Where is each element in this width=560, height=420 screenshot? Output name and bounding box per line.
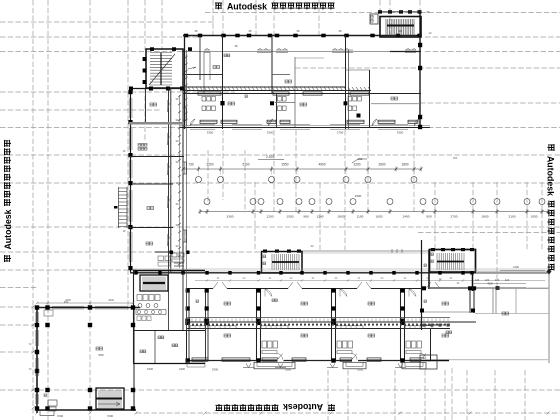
- right block dimension text row: [473, 265, 545, 286]
- svg-text:1800: 1800: [401, 163, 408, 167]
- svg-text:4900: 4900: [318, 163, 325, 167]
- left wing corridor east wall window boxes: [183, 108, 186, 242]
- junction dark band y270: [133, 270, 205, 272]
- upper block tiny dim text above top wall: [194, 29, 402, 33]
- stair S3 mid lower wing: [262, 252, 303, 274]
- svg-text:Autodesk: Autodesk: [283, 402, 323, 412]
- chain1 annotation 2.100: [258, 155, 367, 163]
- svg-text:4200: 4200: [108, 298, 114, 302]
- svg-text:1240: 1240: [317, 215, 324, 219]
- stair S4 right lower wing: [430, 250, 476, 273]
- svg-text:1650: 1650: [376, 215, 383, 219]
- svg-text:2700: 2700: [337, 131, 344, 135]
- svg-text:120: 120: [485, 278, 490, 282]
- svg-text:3300: 3300: [357, 368, 364, 372]
- svg-text:4200: 4200: [65, 298, 71, 302]
- svg-text:45: 45: [338, 29, 342, 33]
- left wing stair west columns: [143, 57, 147, 84]
- svg-text:2400: 2400: [403, 215, 410, 219]
- watermark left rotated -90: [3, 140, 13, 262]
- svg-text:1050: 1050: [531, 215, 538, 219]
- big room window ticks on west wall: [36, 312, 39, 404]
- svg-text:1500: 1500: [355, 194, 362, 198]
- junction toilet cluster: [136, 295, 166, 321]
- svg-text:150: 150: [358, 157, 363, 161]
- svg-text:1500: 1500: [147, 367, 153, 371]
- right block partitions gray: [420, 268, 549, 363]
- big room top dimension line: [36, 298, 135, 304]
- lower wing north wall with column dashes: [263, 248, 474, 253]
- lower wing corridor south wall with doors: [186, 282, 548, 290]
- lower wing classroom labels row1: [196, 299, 449, 305]
- left wing corridor east wall: [183, 50, 187, 252]
- fire ladder outside west wall: [114, 187, 127, 228]
- right block column and band-end diamond: [420, 269, 552, 334]
- big room bottom wall: [36, 409, 136, 411]
- upper block top exterior wall with columns: [183, 34, 422, 38]
- lower wing tiny dim texts below south wall: [212, 368, 364, 372]
- svg-text:7200: 7200: [107, 414, 114, 418]
- upper block partition columns at y103: [220, 101, 347, 105]
- upper block corridor hatched band: [183, 87, 371, 91]
- lower wing south wall partition columns: [186, 358, 405, 362]
- svg-text:3300: 3300: [207, 131, 214, 135]
- junction walls: [133, 252, 205, 364]
- svg-text:7200: 7200: [57, 414, 64, 418]
- svg-text:3300: 3300: [227, 215, 234, 219]
- big room corner fixture top-left: [44, 310, 53, 316]
- svg-text:39: 39: [234, 44, 238, 48]
- upper block bottom exterior wall with sills: [180, 124, 430, 129]
- upper block right wall: [419, 11, 421, 129]
- scattered tiny annotations: [64, 10, 460, 371]
- svg-text:36: 36: [296, 29, 300, 33]
- svg-text:Autodesk: Autodesk: [3, 209, 13, 249]
- big room west wall: [36, 307, 38, 414]
- big room top wall: [37, 307, 140, 309]
- stair S1 top-right of upper block: [370, 10, 422, 51]
- upper block WC stall clusters: [202, 97, 361, 111]
- level symbols below wing: [243, 364, 406, 368]
- svg-text:900: 900: [426, 215, 431, 219]
- svg-text:3300: 3300: [212, 368, 219, 372]
- upper block corridor south wall with window boxes: [183, 92, 421, 95]
- big room bottom dim texts: [36, 412, 550, 419]
- svg-text:1800: 1800: [338, 215, 345, 219]
- left wing partition walls horizontal: [129, 122, 184, 252]
- right block wall y288 gray: [429, 287, 549, 289]
- right block stair south walls: [429, 250, 473, 292]
- lower wing partition columns: [185, 288, 405, 325]
- big room bottom-left step: [40, 411, 54, 416]
- upper block room labels: [188, 44, 398, 106]
- svg-text:45: 45: [248, 29, 252, 33]
- left wing wall y88 with columns: [129, 87, 184, 91]
- svg-text:1500: 1500: [287, 215, 294, 219]
- upper block inner wall y51 with windows: [183, 49, 421, 53]
- big room corner fixtures bottom-left: [44, 394, 57, 411]
- lower wing south wall with window boxes: [186, 354, 548, 363]
- left wing corridor door swings: [168, 100, 172, 246]
- svg-text:2200: 2200: [353, 163, 360, 167]
- upper block tiny dim texts below bottom wall: [207, 131, 404, 135]
- svg-text:2550: 2550: [281, 163, 288, 167]
- lower wing corridor north wall with columns and windows: [130, 271, 548, 275]
- svg-text:Autodesk: Autodesk: [227, 1, 267, 11]
- dimension chain 1 under upper block: [182, 163, 423, 183]
- svg-text:589: 589: [98, 353, 103, 357]
- upper block mid window boxes row: [200, 120, 418, 123]
- left wing room labels: [138, 103, 157, 245]
- upper block partition walls horizontal: [183, 57, 420, 128]
- watermark top: [215, 1, 335, 11]
- big room columns: [35, 305, 135, 410]
- big room west vertical dim ticks: [29, 306, 35, 410]
- svg-text:3300: 3300: [267, 131, 274, 135]
- upper block isolated column in hall: [357, 114, 361, 118]
- svg-text:2.100: 2.100: [266, 155, 274, 159]
- left wing corridor west wall double: [169, 89, 171, 273]
- junction room labels: [140, 336, 178, 353]
- svg-text:2200: 2200: [206, 163, 213, 167]
- watermark right rotated 90: [546, 144, 556, 271]
- svg-text:1200: 1200: [267, 215, 274, 219]
- big room top wall windows: [52, 306, 128, 309]
- svg-text:120: 120: [495, 278, 500, 282]
- svg-text:2100: 2100: [509, 215, 516, 219]
- upper block left wall: [184, 35, 186, 129]
- svg-text:3300: 3300: [397, 131, 404, 135]
- lower wing mid dense band: [186, 318, 476, 329]
- left wing vertical dimension chain x179: [176, 95, 181, 268]
- right block lower walls: [420, 264, 509, 369]
- svg-text:730: 730: [188, 163, 194, 167]
- big room east wall: [133, 308, 135, 411]
- upper block door arcs bottom: [190, 119, 419, 126]
- stair S5 junction: [140, 275, 168, 291]
- svg-text:150: 150: [453, 156, 458, 160]
- lower wing partition walls vertical: [187, 289, 475, 361]
- dimension chain 2 mid courtyard: [199, 194, 550, 219]
- svg-text:5100: 5100: [242, 163, 249, 167]
- lower wing walkway band: [133, 269, 548, 271]
- svg-text:2600: 2600: [378, 163, 385, 167]
- upper block right wall columns: [418, 43, 422, 129]
- stair S2 left wing top: [146, 49, 183, 88]
- svg-text:1200: 1200: [513, 265, 519, 269]
- svg-text:120: 120: [475, 278, 480, 282]
- junction corridor turn dense marks: [170, 251, 190, 267]
- svg-text:3300: 3300: [285, 368, 292, 372]
- svg-text:Autodesk: Autodesk: [546, 156, 556, 196]
- left wing stair top columns: [150, 47, 192, 51]
- lower wing corridor dimension line: [195, 276, 545, 282]
- svg-text:1100: 1100: [357, 215, 364, 219]
- svg-text:980: 980: [303, 215, 308, 219]
- big room label: [96, 347, 104, 357]
- right block west wall: [421, 240, 423, 330]
- watermark bottom rotated 180: [216, 402, 336, 412]
- svg-text:2700: 2700: [451, 215, 458, 219]
- left wing inner wall x145 below stair: [145, 89, 147, 123]
- left wing west exterior wall with columns: [128, 89, 132, 273]
- svg-text:2400: 2400: [179, 367, 185, 371]
- stair S6 in big room: [96, 388, 124, 409]
- lower wing classroom labels row2: [224, 334, 449, 337]
- toilet stall clusters lower wing: [262, 341, 422, 354]
- svg-text:120: 120: [505, 278, 510, 282]
- upper block partition walls vertical: [200, 35, 370, 129]
- svg-text:1800: 1800: [482, 215, 489, 219]
- left wing small room fixtures near S5: [158, 256, 170, 266]
- lower wing classroom door arcs: [265, 289, 416, 297]
- upper block west wall tick chain: [185, 55, 188, 125]
- entrance porches below south wall: [187, 362, 426, 369]
- svg-text:36: 36: [194, 29, 198, 33]
